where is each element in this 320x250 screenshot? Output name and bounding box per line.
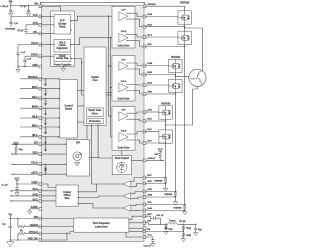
arrow VCP out2 (70, 29, 71, 31)
pin SCLK (39, 163, 42, 166)
node core v2 (97, 125, 98, 126)
ground RFB2 (181, 239, 185, 242)
wire ctrl-core stub 90.5 (77, 90, 84, 92)
wire C source down (165, 143, 167, 177)
pin nSCS (39, 173, 42, 176)
wire B source down (174, 93, 176, 191)
wire RFB2 gnd stem (182, 237, 184, 239)
node VM cap2 junction (28, 5, 29, 6)
node VCP bus B (108, 65, 109, 66)
node VGLS bus A (110, 37, 111, 38)
pin SOB (39, 195, 42, 198)
driver VGLS triangle B (119, 81, 128, 92)
svg-text:FB: FB (147, 229, 150, 231)
wire INHC to block (40, 126, 59, 128)
wire CPH (26, 24, 40, 26)
wire buck to GND2 (129, 227, 145, 229)
ground RSENSE B (173, 202, 177, 205)
svg-text:SOC: SOC (33, 198, 38, 201)
resistor RFB1 (182, 226, 185, 230)
capacitor C5 1uF VGLS (16, 53, 19, 55)
wire nSHDN to buck (40, 226, 73, 228)
pin VM (39, 5, 42, 8)
arrow DVDD out (70, 58, 71, 60)
wire 0.1uF cap lead (28, 6, 30, 11)
wire CSA C out (78, 203, 123, 208)
svg-text:AGND: AGND (31, 206, 38, 209)
svg-text:CPL: CPL (33, 31, 38, 34)
wire cap to CPL (26, 31, 40, 33)
wire SHC to mid (145, 120, 166, 122)
pin INLB (39, 117, 42, 120)
node VIN cap junction (10, 218, 11, 219)
wire ctrl-core stub 106.0 (77, 105, 84, 107)
node C source SPC (165, 142, 166, 143)
pin VDRAIN right (143, 5, 146, 8)
pin ENABLE (39, 77, 42, 80)
wire SPC to source (145, 142, 166, 144)
wire driver out SPC (126, 140, 145, 143)
svg-text:SNB: SNB (147, 195, 152, 197)
wire CSA A inP (131, 178, 144, 182)
svg-text:SDO: SDO (33, 152, 38, 155)
wire INHB (20, 107, 40, 109)
wire INHC (20, 126, 40, 128)
svg-text:VGLS: VGLS (31, 42, 38, 45)
ground VCC cap (151, 244, 155, 247)
pulldown INLB (44, 117, 47, 125)
node gnd rail j2 (24, 66, 25, 67)
wire vcp stub A (109, 15, 116, 17)
pin GLC right (143, 130, 146, 133)
pin VIN (39, 217, 42, 220)
capacitor C6 1uF DVDD (23, 60, 26, 62)
driver VCP triangle C (119, 110, 128, 121)
wire inductor to out (177, 223, 196, 225)
wire BST cap (145, 216, 154, 218)
driver VCP triangle A (119, 10, 128, 21)
resistor RSENSE C (164, 178, 167, 184)
wire A mid (184, 24, 186, 31)
svg-text:VM: VM (34, 3, 38, 6)
pin nFAULT right (143, 159, 146, 162)
wire core down v1 (91, 125, 96, 184)
arrow ENABLE into block (59, 78, 60, 80)
svg-text:SDI: SDI (34, 142, 38, 145)
wire CSA B inP (131, 192, 144, 194)
pin SNC right (143, 182, 146, 185)
wire driver out SPA (126, 41, 145, 47)
pin INHC (39, 126, 42, 129)
arrow SOC output (10, 200, 11, 202)
svg-text:Linear Reg: Linear Reg (56, 57, 69, 60)
wire SPI to core v2 (89, 157, 98, 159)
svg-text:Drive: Drive (92, 113, 99, 116)
wire SOA to OOB (40, 190, 56, 192)
arrow INLB into block (59, 117, 60, 119)
wire VCP to cap (11, 16, 40, 18)
amplifier CSA B (123, 193, 131, 200)
wire SDO to SPI (40, 153, 66, 155)
svg-text:VDRAIN: VDRAIN (147, 3, 156, 6)
svg-text:GHA: GHA (147, 13, 152, 16)
node RSENSE C top (165, 177, 166, 178)
wire RSENSE A gnd stem (184, 211, 186, 212)
node SW diode (165, 224, 166, 225)
svg-text:SHC: SHC (147, 119, 152, 121)
pin GLA right (143, 36, 146, 39)
block SPI (66, 140, 89, 177)
pin RT (39, 232, 42, 235)
svg-text:GLA: GLA (147, 34, 152, 37)
svg-text:0.47 µF: 0.47 µF (156, 214, 164, 217)
pin CPL (39, 32, 42, 35)
pulldown INLC (44, 136, 47, 144)
pin GHB right (143, 64, 146, 67)
wire 0.1uF cap to gnd (28, 12, 30, 14)
pulldown SDI (44, 144, 47, 152)
ground RSENSE A (182, 212, 186, 215)
wire SPB2 to RSENSE (145, 191, 176, 193)
svg-text:Gate Drive: Gate Drive (118, 44, 131, 47)
wire VCP cap to VDRAIN net (10, 24, 12, 27)
svg-text:1 µF: 1 µF (21, 52, 26, 54)
svg-text:BST: BST (147, 214, 152, 216)
svg-text:CBK: CBK (198, 229, 203, 231)
wire RSENSE B gnd stem (174, 197, 176, 202)
wire SDI to SPI (40, 143, 66, 145)
pin GND (39, 65, 42, 68)
wire SDI (11, 143, 40, 145)
wire GHA to gate (145, 16, 178, 18)
node RSENSE B bottom (175, 196, 176, 197)
svg-text:SPC: SPC (147, 175, 152, 177)
wire B mid (174, 73, 176, 80)
wire INHA to block (40, 88, 59, 90)
wire vgls stub A (111, 37, 116, 39)
motor BLDC (189, 69, 206, 86)
resistor R-EN nSHDN (18, 225, 25, 228)
svg-text:SHB: SHB (147, 72, 152, 74)
wire VGLS cap lead (17, 45, 19, 53)
svg-text:0.47 µF: 0.47 µF (144, 245, 152, 248)
svg-text:LBUCK: LBUCK (169, 220, 176, 222)
node SPI v2 (97, 157, 98, 158)
pin INHA (39, 87, 42, 90)
svg-text:47 nF: 47 nF (17, 30, 24, 33)
wire RPU nFAULT join (159, 158, 161, 160)
block Smart Gate Drive (87, 108, 104, 116)
arrow SOA output (10, 190, 11, 192)
wire CPH pin to block (40, 24, 54, 26)
wire C mid (165, 119, 167, 130)
wire VCP pin to block (40, 16, 54, 18)
wire driver out GHA (126, 13, 145, 16)
wire GNDBK to buck (40, 232, 67, 240)
arrow SDI input (13, 143, 14, 145)
wire SHB to mid (145, 74, 176, 76)
svg-text:VCP: VCP (33, 14, 38, 17)
wire RT (25, 233, 40, 235)
pulldown INHA (44, 88, 47, 96)
arrow SCLK into SPI (65, 163, 66, 165)
icon SPI loop (73, 152, 82, 166)
resistor RPU SDO (15, 147, 18, 153)
svg-text:SPC: SPC (147, 141, 152, 143)
wire DVDD cap to gnd rail (24, 62, 26, 67)
svg-text:VDRAIN: VDRAIN (171, 56, 180, 59)
pin SNB right (143, 196, 146, 199)
wire CSA B out (78, 196, 123, 198)
pullup nSCS (44, 167, 47, 175)
ground COUT (194, 233, 198, 236)
wire vcp stub B (109, 65, 116, 67)
arrow INLA into block (59, 98, 60, 100)
node RSENSE C bottom (165, 183, 166, 184)
wire SCLK (11, 163, 40, 165)
arrow SDI into SPI (65, 143, 66, 145)
wire driver out SHA (126, 19, 145, 27)
svg-text:RFB2: RFB2 (186, 235, 191, 237)
pulldown ENABLE (44, 78, 47, 86)
wire VCC tick SDO (15, 145, 18, 147)
transistor Q5 C-high (159, 106, 172, 119)
pin SHB right (143, 73, 146, 76)
pin INLC (39, 135, 42, 138)
wire CSA A inN (131, 184, 144, 187)
svg-text:Power Supplies: Power Supplies (54, 63, 72, 66)
wire ctrl-core stub 122.0 (77, 121, 84, 123)
wire vgls stub B (111, 87, 116, 89)
wire VIN rail (10, 218, 40, 220)
pin INHB (39, 107, 42, 110)
arrow nSCS input (13, 173, 14, 175)
pulldown INHB (44, 108, 47, 116)
wire VM net tick (10, 3, 12, 6)
wire INHA (20, 88, 40, 90)
node B phase (175, 76, 176, 77)
wire CIN lead (9, 219, 11, 227)
wire A source down (184, 45, 186, 204)
pin SPA2 right (143, 203, 146, 206)
svg-text:SHA: SHA (147, 23, 152, 26)
wire CSA C inP (131, 205, 144, 206)
wire driver out GHB (126, 63, 145, 66)
svg-text:Fault Output: Fault Output (115, 157, 129, 160)
wire DVDD bus (71, 59, 85, 96)
node CIN gnd junction (10, 239, 11, 240)
wire core down v2 (98, 125, 112, 158)
wire RT to gnd rail (17, 234, 19, 241)
svg-text:INLC: INLC (32, 134, 38, 137)
wire DVDD pin to block (40, 55, 54, 57)
svg-text:RFB1: RFB1 (186, 227, 191, 229)
wire bulk cap lead (10, 6, 12, 11)
arrow INHB into block (59, 107, 60, 109)
pin FB right (143, 230, 146, 233)
wire nFAULT (131, 159, 144, 161)
pin SHC right (143, 120, 146, 123)
node VCP bus A (108, 16, 109, 17)
pin AGND (39, 207, 42, 210)
svg-text:GHB: GHB (147, 63, 152, 65)
wire AGND (30, 208, 41, 210)
pin SDO (39, 153, 42, 156)
svg-text:INHA: INHA (32, 86, 38, 89)
pin GND2 right (143, 227, 146, 230)
wire VIN to buck (40, 218, 73, 220)
node VM cap1 junction (10, 5, 11, 6)
block DVDD regulator (54, 55, 71, 62)
wire VGLS bus (71, 38, 111, 137)
svg-text:SCLK: SCLK (31, 162, 38, 165)
wire SOA (10, 190, 40, 192)
ground RSENSE C (163, 188, 167, 191)
ground below C2 (26, 13, 30, 16)
wire SDO (11, 153, 40, 155)
wire INLB (20, 117, 40, 119)
wire nFAULT ext (145, 159, 164, 161)
block Output Offset Bias (56, 185, 78, 206)
wire ENABLE to block (40, 78, 59, 80)
svg-text:1 µF: 1 µF (14, 23, 19, 25)
svg-text:0.1 µF: 0.1 µF (20, 6, 27, 8)
wire COUT gnd stem (195, 230, 197, 233)
wire GLB to gate (145, 84, 169, 86)
svg-text:Core: Core (92, 79, 98, 82)
svg-text:GLB: GLB (147, 83, 152, 85)
svg-text:SOB: SOB (33, 193, 38, 196)
pin SPB2 right (143, 190, 146, 193)
wire VREF (17, 183, 40, 185)
resistor RSENSE B (174, 192, 177, 198)
capacitor C4 47nF flying (24, 30, 27, 32)
arrow SCLK input (13, 163, 14, 165)
wire gate drive C to fault block (121, 150, 123, 155)
svg-text:INHB: INHB (32, 106, 38, 109)
wire A phase to motor (185, 28, 203, 71)
svg-text:VGLS: VGLS (121, 31, 127, 33)
wire SPC2 to RSENSE (145, 177, 166, 179)
wire SOC (10, 200, 40, 202)
wire VCC cap gnd stem (152, 241, 154, 243)
wire SOC to OOB (40, 200, 56, 202)
wire core to gatedrive B1 (106, 92, 112, 94)
svg-text:SNC: SNC (147, 181, 152, 183)
wire DVDD (25, 55, 40, 57)
svg-text:VM_BK: VM_BK (179, 221, 186, 223)
wire buck to FB (129, 231, 145, 233)
transistor Q4 B-low (169, 79, 182, 92)
pin SOA (39, 189, 42, 192)
wire DVDD cap lead (24, 56, 26, 60)
wire RFB1 to tap (182, 230, 184, 233)
wire FB to tap (145, 231, 184, 233)
node VREF cap junction (16, 183, 17, 184)
pin SOC (39, 200, 42, 203)
amplifier CSA C (123, 205, 131, 212)
svg-text:+ 100 µF: + 100 µF (0, 6, 9, 8)
resistor RPU nFAULT (159, 152, 162, 158)
wire bulk cap to gnd (10, 12, 12, 14)
svg-text:Protection: Protection (89, 120, 101, 123)
node A mid (184, 26, 185, 27)
wire VCP cap lead (10, 17, 12, 23)
node buck out (183, 224, 184, 225)
arrow INHA into block (59, 88, 60, 90)
transistor Q6 C-low (159, 130, 172, 143)
wire VGLS (18, 44, 40, 46)
wire buck to BST (129, 216, 145, 219)
resistor RT (18, 232, 25, 235)
node OOB out 203.3 (78, 203, 79, 204)
arrow VCP out (70, 20, 71, 22)
resistor RFB2 (182, 233, 185, 237)
svg-text:SPI: SPI (76, 141, 80, 144)
wire core to SPI (86, 125, 88, 139)
arrow nFAULT (163, 160, 164, 162)
capacitor C10 buck out (194, 228, 197, 230)
svg-text:DBK: DBK (168, 229, 173, 231)
wire driver out GHC (126, 112, 145, 113)
wire INHB to block (40, 107, 59, 109)
node nSHDN tie (17, 218, 18, 219)
svg-text:RSENSE: RSENSE (174, 207, 183, 209)
pin VREF (39, 183, 42, 186)
wire CSA C inN (131, 209, 144, 211)
svg-text:(VDRAIN): (VDRAIN) (5, 28, 15, 31)
svg-text:(LMR16006X): (LMR16006X) (95, 227, 108, 229)
node RSENSE A bottom (184, 210, 185, 211)
svg-text:VGLS: VGLS (121, 81, 127, 83)
node A phase (184, 27, 185, 28)
svg-text:Buck Regulator: Buck Regulator (93, 222, 110, 225)
wire INLA (20, 97, 40, 99)
svg-text:VCP: VCP (121, 59, 126, 61)
svg-text:RSENSE: RSENSE (155, 180, 164, 182)
wire buck to SW (129, 222, 145, 224)
svg-text:Bias: Bias (65, 197, 71, 200)
wire core to gatedrive B2 (106, 94, 112, 96)
wire INLA to block (40, 97, 59, 99)
block Control Inputs (60, 80, 78, 139)
node C mid (165, 120, 166, 121)
svg-text:VCC: VCC (147, 235, 152, 237)
wire buck to VCC (126, 232, 145, 237)
node C phase (165, 124, 166, 125)
svg-text:Inputs: Inputs (65, 108, 73, 111)
ground below C1 (9, 13, 13, 16)
pulldown SCLK (44, 164, 47, 172)
wire B drain stub (174, 58, 176, 60)
node OOB out 191.8 (78, 191, 79, 192)
node gnd rail j1 (17, 66, 18, 67)
wire nSHDN riser (17, 219, 19, 227)
block Gate Drive B (112, 56, 135, 102)
wire CPH to cap (25, 25, 27, 30)
svg-text:ENABLE: ENABLE (28, 76, 38, 79)
wire VDRAIN to FETA (145, 6, 185, 11)
node SDO pullup (15, 153, 16, 154)
pin INLA (39, 97, 42, 100)
svg-text:SNA: SNA (147, 207, 152, 210)
block VCP charge pump (54, 15, 71, 35)
wire vcp stub C (109, 115, 116, 117)
wire driver out SHB (126, 69, 145, 75)
svg-text:INLA: INLA (32, 96, 38, 99)
wire nSCS (11, 173, 40, 175)
wire SPA to source (145, 46, 185, 48)
